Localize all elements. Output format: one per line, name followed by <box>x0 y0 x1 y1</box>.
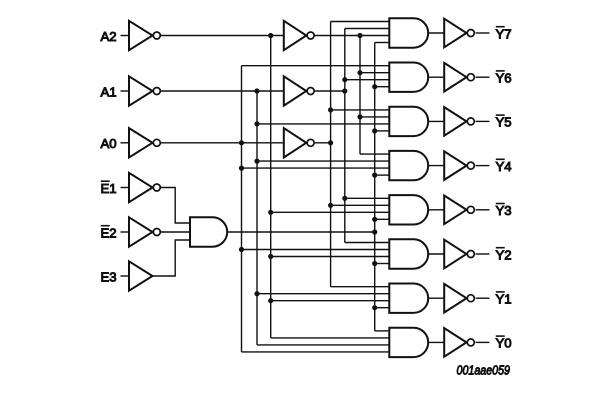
svg-text:Y6: Y6 <box>496 71 512 86</box>
svg-text:Y3: Y3 <box>496 203 512 218</box>
svg-text:E2: E2 <box>101 225 117 240</box>
svg-text:E3: E3 <box>101 269 117 284</box>
svg-text:Y1: Y1 <box>496 292 512 307</box>
svg-text:Y5: Y5 <box>496 115 512 130</box>
svg-text:Y4: Y4 <box>496 159 512 174</box>
svg-text:A0: A0 <box>101 136 117 151</box>
svg-text:Y2: Y2 <box>496 247 512 262</box>
svg-text:E1: E1 <box>101 181 117 196</box>
svg-text:A1: A1 <box>101 84 117 99</box>
svg-text:001aae059: 001aae059 <box>457 363 511 378</box>
svg-text:Y0: Y0 <box>496 336 512 351</box>
svg-text:A2: A2 <box>101 29 117 44</box>
svg-text:Y7: Y7 <box>496 26 512 41</box>
